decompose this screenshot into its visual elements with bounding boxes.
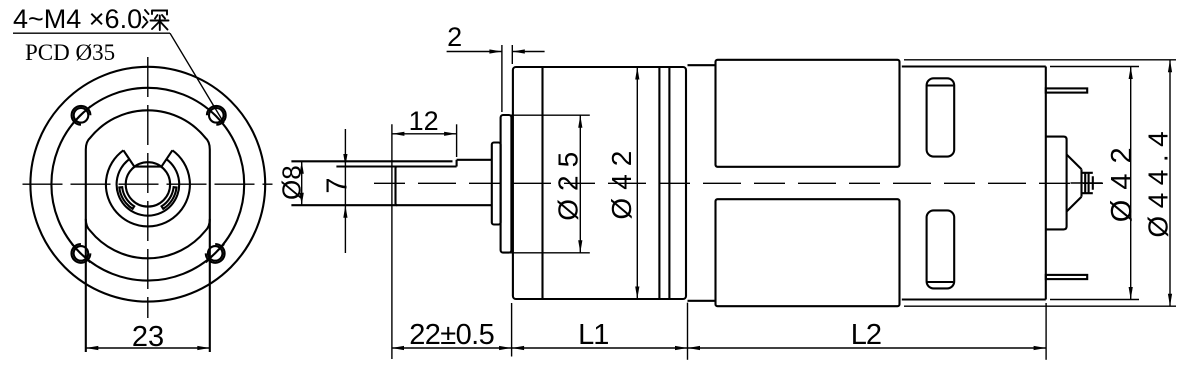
dim Ø42 motor arrows xyxy=(1129,67,1133,80)
screw hole BR inner circle xyxy=(208,246,223,261)
dim 23 line xyxy=(86,347,210,349)
shaft top extension line (Ø8) xyxy=(291,160,452,162)
dim L1 right extension xyxy=(687,303,689,360)
lower-left tab band xyxy=(119,187,134,209)
screw hole TR thread arc xyxy=(207,106,226,125)
dim Ø25 bottom extension xyxy=(502,252,590,254)
center shaft circle Ø8 xyxy=(126,162,170,206)
cone right edge xyxy=(1080,169,1082,196)
horizontal centerline of front view xyxy=(23,183,273,185)
screw hole BR slash xyxy=(206,244,224,262)
bearing boss xyxy=(492,143,501,225)
stub centerline xyxy=(1071,182,1103,184)
callout leader to TR hole xyxy=(170,33,224,123)
stub ring line 1 xyxy=(1084,173,1086,193)
dim Ø8 arrows xyxy=(300,161,304,174)
rear bearing stub xyxy=(1082,173,1093,193)
screw hole TL slash xyxy=(72,106,90,124)
left flat side + 23 extension line xyxy=(85,150,87,353)
dim 2 arrows xyxy=(489,49,502,53)
terminal bottom xyxy=(1046,275,1087,279)
retainer ring inner arc xyxy=(117,159,180,216)
dim Ø42 gearbox line xyxy=(636,67,638,299)
svg-text:L2: L2 xyxy=(851,319,881,351)
svg-text:4~M4 ×6.0: 4~M4 ×6.0 xyxy=(13,4,142,34)
dim 12 arrows xyxy=(392,132,405,136)
dim L1 arrows xyxy=(512,346,524,350)
screw hole TR inner circle xyxy=(209,108,224,123)
vertical centerline of front view xyxy=(147,57,149,318)
dim 22 arrows xyxy=(392,346,405,350)
svg-text:Ø42: Ø42 xyxy=(606,143,637,220)
svg-text:Ø42: Ø42 xyxy=(1106,137,1138,222)
dim L2 arrows xyxy=(688,346,701,350)
screw hole BR thread arc xyxy=(206,244,225,263)
screw hole TL inner circle xyxy=(74,108,89,123)
dim Ø42 motor top extension xyxy=(1050,66,1139,68)
screw hole BL slash xyxy=(72,244,90,262)
dim Ø44.4 arrows xyxy=(1168,60,1172,73)
dim Ø42 gearbox arrows xyxy=(635,67,639,80)
gearbox inner line right 1 xyxy=(658,67,660,299)
face circle bottom arc xyxy=(86,219,210,258)
svg-text:L1: L1 xyxy=(578,319,608,351)
dim 12 line xyxy=(392,133,457,135)
dim Ø44.4 top extension xyxy=(904,59,1176,61)
dim 7 arrows xyxy=(343,154,347,167)
motor crimp band bottom xyxy=(716,199,900,306)
svg-text:Ø8: Ø8 xyxy=(276,165,306,200)
svg-text:PCD Ø35: PCD Ø35 xyxy=(25,40,115,65)
dim Ø44.4 line xyxy=(1169,60,1171,306)
retainer ring outer arc xyxy=(106,150,190,226)
right flat side + 23 extension line xyxy=(209,150,211,353)
brush cap disc xyxy=(1046,137,1067,230)
brush cap cone top slant xyxy=(1067,155,1082,170)
svg-text:Ø44.4: Ø44.4 xyxy=(1142,124,1173,238)
svg-text:12: 12 xyxy=(409,106,439,136)
keyway notch right slant xyxy=(162,150,173,166)
dim 2 right line xyxy=(512,51,544,53)
main centerline xyxy=(374,182,1103,184)
dim Ø44.4 bottom extension xyxy=(904,305,1176,307)
motor can top line xyxy=(902,65,1046,67)
svg-text:2: 2 xyxy=(447,22,462,52)
dim Ø42 motor line xyxy=(1130,67,1132,300)
dim 12 right extension line xyxy=(456,124,458,157)
vent slot bottom inner line xyxy=(928,281,954,283)
dim L1 line xyxy=(512,347,688,349)
motor crimp band top xyxy=(716,60,900,167)
shaft top silhouette after flat xyxy=(457,159,493,161)
svg-text:7: 7 xyxy=(321,177,353,193)
gearbox body xyxy=(513,67,686,299)
svg-text:Ø25: Ø25 xyxy=(552,144,583,221)
dim 2 right extension xyxy=(511,45,513,64)
dim Ø25 arrows xyxy=(578,115,582,128)
front plate Ø25 2mm xyxy=(501,115,512,253)
dim 22±0.5 line xyxy=(392,347,512,349)
vent slot bottom xyxy=(927,210,955,288)
outer flange circle (Ø42) xyxy=(30,67,265,302)
motor neck bottom line xyxy=(688,300,716,302)
dim 23 arrow right xyxy=(197,346,210,350)
shaft end face xyxy=(396,167,398,206)
vent slot top inner line xyxy=(928,84,954,86)
gearbox inner line left xyxy=(541,67,543,299)
keyway notch left slant xyxy=(123,150,134,166)
brush cap cone bottom slant xyxy=(1067,197,1082,212)
screw hole BL thread arc xyxy=(72,244,91,263)
motor can bottom line xyxy=(902,298,1046,300)
dim 12 left extension line xyxy=(391,124,393,359)
stub ring line 2 xyxy=(1088,173,1090,193)
terminal top xyxy=(1046,88,1087,92)
keyway notch flat bottom xyxy=(134,166,163,168)
lower-right tab band xyxy=(162,187,177,209)
dim 2 left line xyxy=(447,51,502,53)
flat end step xyxy=(456,160,458,167)
dim Ø25 line xyxy=(579,115,581,253)
dim L2 line xyxy=(688,347,1047,349)
hand-drawn CJK shen (deep) xyxy=(143,10,169,30)
face circle top arc (flattened circle) xyxy=(86,110,210,149)
screw hole BL inner circle xyxy=(74,246,89,261)
svg-text:22±0.5: 22±0.5 xyxy=(409,319,494,351)
dim 23 arrow left xyxy=(86,346,99,350)
shaft bottom line xyxy=(291,204,492,206)
callout underline xyxy=(13,32,170,34)
dim Ø42 motor bottom extension xyxy=(1050,299,1139,301)
svg-text:23: 23 xyxy=(132,321,164,353)
dim 2 left extension xyxy=(501,45,503,112)
dim 7 line xyxy=(344,129,346,253)
dim Ø25 top extension xyxy=(502,114,590,116)
screw hole TL thread arc xyxy=(72,106,91,125)
dim L2 right extension xyxy=(1045,303,1047,360)
vent slot top xyxy=(927,78,955,156)
gearbox inner line right 2 xyxy=(668,67,670,299)
shaft flat line + 7 extension xyxy=(336,165,456,167)
motor can right face xyxy=(1045,67,1047,300)
bolt circle PCD35 xyxy=(51,88,244,281)
dim Ø8 line xyxy=(301,161,303,205)
dim 22 right extension (gearbox face) xyxy=(511,303,513,357)
motor neck top line xyxy=(688,64,716,66)
